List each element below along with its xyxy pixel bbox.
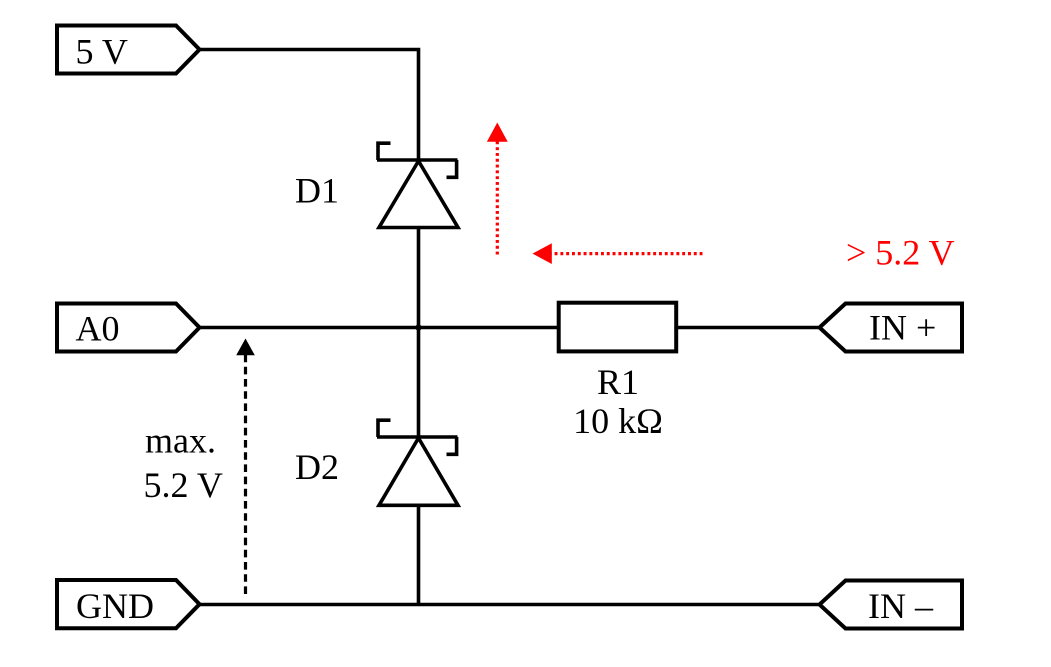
svg-text:5 V: 5 V [76, 31, 128, 71]
svg-text:10 kΩ: 10 kΩ [573, 401, 663, 441]
connector tag A0 [57, 304, 200, 352]
svg-text:max.: max. [145, 421, 216, 461]
svg-text:5.2 V: 5.2 V [144, 465, 223, 505]
diode D1 (Schottky, anode at A0 node, cathode to 5V) [377, 143, 458, 227]
svg-text:> 5.2 V: > 5.2 V [846, 233, 955, 273]
annotation arrow max 5.2V (black dashed, pointing up at A0 wire) [236, 339, 255, 595]
svg-text:A0: A0 [76, 309, 120, 349]
resistor R1 body [559, 303, 677, 352]
svg-text:IN –: IN – [868, 586, 934, 626]
svg-text:GND: GND [76, 586, 154, 626]
connector tag GND [57, 580, 200, 628]
svg-text:D2: D2 [295, 447, 339, 487]
diode D2 (Schottky, anode at GND, cathode to A0 node) [377, 420, 458, 505]
wire GND net: GND tag to IN- [200, 603, 819, 607]
connector tag IN+ [820, 304, 963, 352]
current path arrow horizontal (red dotted, pointing left toward node) [533, 243, 703, 264]
svg-text:D1: D1 [295, 171, 339, 211]
node junction dot at A0/diode column [414, 323, 423, 332]
wire A0 net: A0 tag to resistor and resistor to IN+ [199, 326, 819, 330]
wire 5V rail: tag tip to top corner, down to node [200, 50, 419, 605]
svg-text:R1: R1 [597, 362, 639, 402]
svg-text:IN +: IN + [869, 308, 936, 348]
connector tag IN- [820, 581, 963, 629]
connector tag 5V [57, 26, 200, 74]
current path arrow vertical (red dotted, up along diode D1) [487, 123, 508, 255]
